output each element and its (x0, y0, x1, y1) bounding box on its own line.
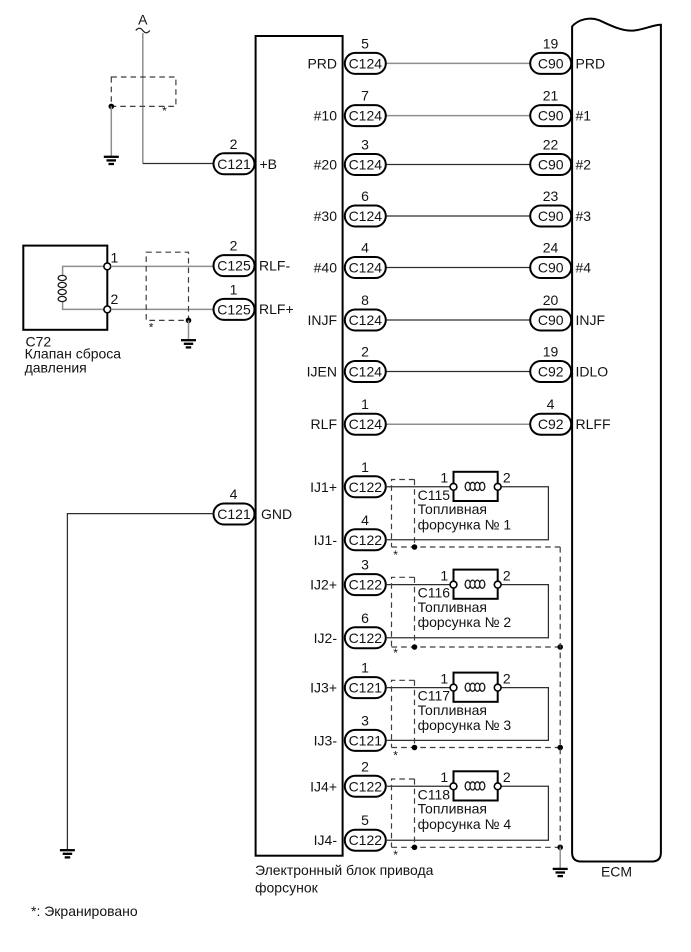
connector C124 pin 6 (#30) (314, 188, 386, 227)
shielded-cable dashed box (injector 1 wires) (392, 480, 561, 562)
ground (injector shields) (553, 869, 568, 876)
injector C118 caption (418, 786, 512, 832)
svg-text:GND: GND (261, 506, 292, 522)
coil of injector C117 (465, 683, 486, 691)
svg-text:форсунка № 1: форсунка № 1 (418, 516, 512, 532)
injector C117 pin 2 (494, 670, 511, 691)
injector C115 pin 2 (494, 470, 511, 491)
fuel injector C115 box (454, 472, 498, 501)
svg-text:+B: +B (260, 156, 278, 172)
svg-text:C121: C121 (349, 732, 383, 748)
svg-text:#3: #3 (576, 208, 592, 224)
svg-text:IJ4+: IJ4+ (310, 778, 337, 794)
injector driver caption (255, 862, 434, 896)
svg-text:*: * (393, 748, 398, 762)
connector C124 pin 5 (PRD) (307, 35, 385, 74)
svg-text:C90: C90 (538, 157, 564, 173)
junction dot shield 1 (412, 544, 418, 550)
svg-text:C90: C90 (538, 108, 564, 124)
svg-text:Топливная: Топливная (418, 801, 487, 817)
svg-text:1: 1 (440, 470, 448, 486)
junction dot on shield box (109, 104, 115, 110)
shielded-cable dashed box (valve wires) (146, 252, 188, 334)
svg-text:IJ3+: IJ3+ (310, 680, 337, 696)
coil of injector C118 (465, 782, 486, 790)
svg-text:1: 1 (111, 250, 119, 266)
connector C124 pin 4 (#40) (314, 240, 386, 279)
svg-text:IJEN: IJEN (307, 364, 337, 380)
svg-text:#4: #4 (576, 260, 592, 276)
relief valve C72 box (23, 246, 107, 330)
connector C90 pin 20 (INJF) (530, 292, 605, 331)
wire injector return to IJ3- (386, 688, 549, 741)
svg-text:форсунка № 3: форсунка № 3 (418, 717, 512, 733)
svg-text:C124: C124 (349, 364, 383, 380)
svg-text:RLFF: RLFF (576, 416, 611, 432)
svg-text:IJ1+: IJ1+ (310, 479, 337, 495)
svg-text:21: 21 (543, 88, 559, 104)
wire injector return to IJ1- (386, 487, 549, 540)
junction dot shield 2 (412, 644, 418, 650)
svg-text:IJ4-: IJ4- (314, 832, 338, 848)
svg-text:4: 4 (547, 396, 555, 412)
svg-text:2: 2 (503, 670, 511, 686)
svg-text:*: * (393, 548, 398, 562)
svg-text:24: 24 (543, 240, 559, 256)
wire #30 to #3 (386, 215, 530, 217)
injector C118 pin 1 (440, 769, 456, 790)
injector C116 caption (418, 585, 512, 631)
connector C125 pin 1 (RLF+) (214, 281, 294, 320)
wire valve pin1 to RLF- (111, 265, 214, 267)
svg-text:2: 2 (503, 567, 511, 583)
svg-text:C122: C122 (349, 577, 383, 593)
injector C116 pin 1 (440, 567, 456, 588)
wire valve pin2 to RLF+ (111, 308, 214, 310)
ground (shield of node A wire) (104, 157, 119, 164)
connector C92 pin 4 (RLFF) (530, 396, 610, 435)
svg-text:C90: C90 (538, 260, 564, 276)
svg-text:4: 4 (361, 512, 369, 528)
svg-text:7: 7 (361, 88, 369, 104)
valve pin 1 (104, 250, 119, 270)
svg-text:C124: C124 (349, 157, 383, 173)
junction dot shield drain 3 (557, 745, 563, 751)
svg-text:Топливная: Топливная (418, 702, 487, 718)
junction dot shield drain 2 (557, 644, 563, 650)
svg-text:IDLO: IDLO (576, 364, 609, 380)
svg-text:C121: C121 (349, 680, 383, 696)
wire IJ2+ to injector (386, 584, 450, 586)
connector C122 pin 2 (IJ4+) (310, 758, 386, 797)
svg-text:IJ3-: IJ3- (314, 732, 338, 748)
valve pin 2 (104, 291, 119, 313)
svg-text:форсунка № 4: форсунка № 4 (418, 816, 512, 832)
svg-text:*: * (393, 646, 398, 660)
svg-text:Электронный блок привода: Электронный блок привода (255, 862, 434, 878)
shielded-cable dashed box (node A wire) (111, 77, 176, 118)
svg-text:1: 1 (361, 660, 369, 676)
svg-text:INJF: INJF (576, 312, 606, 328)
svg-text:2: 2 (111, 291, 119, 307)
svg-text:5: 5 (361, 35, 369, 51)
svg-text:RLF: RLF (311, 416, 337, 432)
svg-text:5: 5 (361, 812, 369, 828)
svg-text:*: * (149, 320, 154, 334)
svg-text:C124: C124 (349, 55, 383, 71)
svg-text:PRD: PRD (576, 55, 606, 71)
svg-text:C122: C122 (349, 832, 383, 848)
fuel injector C117 box (454, 673, 498, 702)
svg-text:C124: C124 (349, 312, 383, 328)
svg-text:A: A (138, 12, 148, 28)
svg-text:*: * (162, 104, 167, 118)
injector C117 pin 1 (440, 670, 456, 691)
svg-text:PRD: PRD (307, 55, 337, 71)
wire IJ4+ to injector (386, 785, 450, 787)
svg-text:2: 2 (503, 470, 511, 486)
svg-text:*: * (393, 848, 398, 862)
junction dot shield 3 (412, 745, 418, 751)
wire IJ1+ to injector (386, 486, 450, 488)
svg-text:3: 3 (361, 712, 369, 728)
wire IJ3+ to injector (386, 687, 450, 689)
wire #40 to #4 (386, 267, 530, 269)
node A (136, 12, 150, 33)
wire IJEN to IDLO (386, 371, 530, 373)
svg-text:C122: C122 (349, 630, 383, 646)
svg-text:1: 1 (440, 769, 448, 785)
connector C122 pin 4 (IJ1-) (314, 512, 386, 551)
connector C122 pin 6 (IJ2-) (314, 610, 386, 649)
svg-text:8: 8 (361, 292, 369, 308)
svg-text:1: 1 (440, 567, 448, 583)
svg-text:давления: давления (25, 359, 87, 375)
wire INJF to INJF (386, 319, 530, 321)
svg-text:C124: C124 (349, 208, 383, 224)
svg-text:IJ1-: IJ1- (314, 532, 338, 548)
coil of valve C72 (58, 266, 107, 309)
injector C117 caption (418, 688, 512, 734)
svg-text:1: 1 (361, 459, 369, 475)
GND wire to ground (67, 514, 213, 850)
svg-text:2: 2 (230, 238, 238, 254)
injector driver unit box (256, 36, 343, 856)
connector C122 pin 3 (IJ2+) (310, 557, 386, 596)
svg-text:#40: #40 (314, 260, 338, 276)
connector C121 pin 1 (IJ3+) (310, 660, 386, 699)
ground (valve shield) (181, 340, 196, 347)
svg-text:23: 23 (543, 188, 559, 204)
svg-text:C125: C125 (217, 301, 251, 317)
svg-text:3: 3 (361, 137, 369, 153)
svg-text:1: 1 (230, 281, 238, 297)
svg-text:3: 3 (361, 557, 369, 573)
svg-text:C121: C121 (217, 156, 251, 172)
svg-text:Топливная: Топливная (418, 599, 487, 615)
svg-text:#20: #20 (314, 157, 338, 173)
svg-text:C92: C92 (538, 416, 564, 432)
wire injector return to IJ4- (386, 786, 549, 840)
shield drain drop to ground (559, 847, 561, 868)
connector C90 pin 22 (#2) (530, 137, 591, 176)
wire shield drop to ground (110, 106, 112, 156)
connector C121 pin 3 (IJ3-) (314, 712, 386, 751)
connector C122 pin 1 (IJ1+) (310, 459, 386, 498)
connector C125 pin 2 (RLF-) (214, 238, 291, 277)
coil of injector C116 (465, 580, 486, 588)
svg-text:IJ2-: IJ2- (314, 630, 338, 646)
injector C116 pin 2 (494, 567, 511, 588)
ground (GND wire) (60, 850, 75, 857)
ECM box (572, 19, 661, 862)
svg-text:6: 6 (361, 188, 369, 204)
connector C92 pin 19 (IDLO) (530, 344, 608, 383)
wire from node A to +B (143, 33, 214, 164)
coil of injector C115 (465, 482, 486, 490)
svg-text:22: 22 (543, 137, 559, 153)
svg-text:C122: C122 (349, 778, 383, 794)
connector C124 pin 7 (#10) (314, 88, 386, 127)
connector C124 pin 2 (IJEN) (307, 344, 386, 383)
svg-text:C122: C122 (349, 479, 383, 495)
valve shield drop to ground (188, 320, 190, 339)
svg-text:C90: C90 (538, 312, 564, 328)
svg-text:Топливная: Топливная (418, 501, 487, 517)
svg-text:форсунок: форсунок (255, 879, 319, 895)
svg-text:19: 19 (543, 344, 559, 360)
shield drain dashed wire (559, 547, 561, 847)
svg-text:INJF: INJF (307, 312, 337, 328)
injector C118 pin 2 (494, 769, 511, 790)
svg-text:2: 2 (361, 758, 369, 774)
wire injector return to IJ2- (386, 585, 549, 638)
connector C121 pin 2 (+B) (214, 136, 278, 174)
svg-text:C124: C124 (349, 260, 383, 276)
svg-text:1: 1 (361, 396, 369, 412)
svg-text:C90: C90 (538, 55, 564, 71)
svg-text:2: 2 (230, 136, 238, 152)
svg-text:C92: C92 (538, 364, 564, 380)
connector C124 pin 1 (RLF) (311, 396, 386, 435)
junction dot on valve shield (186, 318, 192, 324)
junction dot shield 4 (412, 845, 418, 851)
svg-text:4: 4 (361, 240, 369, 256)
svg-text:19: 19 (543, 35, 559, 51)
connector C90 pin 21 (#1) (530, 88, 591, 127)
svg-text:20: 20 (543, 292, 559, 308)
svg-text:1: 1 (440, 670, 448, 686)
footnote (31, 903, 138, 919)
svg-text:C90: C90 (538, 208, 564, 224)
injector C115 caption (418, 487, 512, 533)
svg-text:RLF-: RLF- (259, 257, 290, 273)
junction dot shield drain 4 (557, 845, 563, 851)
svg-text:#10: #10 (314, 108, 338, 124)
shielded-cable dashed box (injector 2 wires) (392, 577, 561, 660)
wire RLF to RLFF (386, 423, 530, 425)
svg-text:*: Экранировано: *: Экранировано (31, 903, 138, 919)
svg-text:4: 4 (230, 486, 238, 502)
svg-text:RLF+: RLF+ (259, 301, 294, 317)
svg-text:C124: C124 (349, 416, 383, 432)
svg-text:2: 2 (503, 769, 511, 785)
connector C90 pin 23 (#3) (530, 188, 591, 227)
fuel injector C116 box (454, 570, 498, 599)
svg-text:#2: #2 (576, 157, 592, 173)
svg-text:ECM: ECM (601, 864, 632, 880)
svg-text:C121: C121 (217, 506, 251, 522)
connector C124 pin 8 (INJF) (307, 292, 385, 331)
wire PRD to PRD (386, 62, 530, 64)
connector C124 pin 3 (#20) (314, 137, 386, 176)
connector C90 pin 19 (PRD) (530, 35, 605, 74)
svg-text:C125: C125 (217, 258, 251, 274)
ECM caption (601, 864, 632, 880)
svg-text:#1: #1 (576, 108, 592, 124)
shielded-cable dashed box (injector 4 wires) (392, 779, 561, 862)
svg-text:#30: #30 (314, 208, 338, 224)
C72 caption (25, 333, 122, 375)
svg-text:C122: C122 (349, 532, 383, 548)
svg-text:форсунка № 2: форсунка № 2 (418, 614, 512, 630)
fuel injector C118 box (454, 771, 498, 800)
connector C122 pin 5 (IJ4-) (314, 812, 386, 851)
svg-text:IJ2+: IJ2+ (310, 577, 337, 593)
wire #20 to #2 (386, 164, 530, 166)
svg-text:6: 6 (361, 610, 369, 626)
svg-text:C124: C124 (349, 108, 383, 124)
wire #10 to #1 (386, 115, 530, 117)
svg-text:2: 2 (361, 344, 369, 360)
connector C90 pin 24 (#4) (530, 240, 591, 279)
injector C115 pin 1 (440, 470, 456, 491)
connector C121 pin 4 (GND) (214, 486, 293, 525)
shielded-cable dashed box (injector 3 wires) (392, 680, 561, 762)
